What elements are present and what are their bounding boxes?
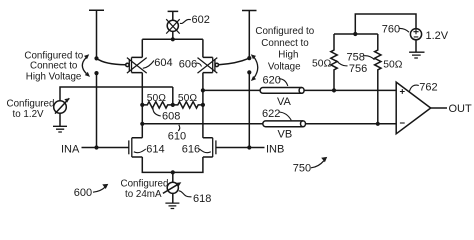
ground (1.2V source) [409,52,424,58]
transistor Q614 (NMOS) [129,138,143,157]
ground (tail current source) [165,203,179,208]
svg-text:606: 606 [179,59,197,71]
comparator 762 [396,82,431,134]
label 750 with arrow [293,157,327,175]
wire INB input line [216,147,265,149]
svg-text:50Ω: 50Ω [178,93,197,104]
current source 602 (crossed out circle) [166,19,180,39]
node dot1 left (high voltage option) [94,56,98,60]
node dot1 right (high voltage option) [247,56,251,60]
text Configured to 24mA [121,179,169,201]
wire VA line continues to comparator [304,89,396,91]
wire center tap down to resistor mid node [172,87,174,105]
switch arm from node to gate of Q604 [97,58,126,64]
power supply T-bar right (high voltage) [242,11,257,58]
svg-text:750: 750 [293,163,311,175]
junction node INB / config wire [247,145,251,149]
svg-text:Voltage: Voltage [268,62,301,73]
svg-text:Configured: Configured [121,179,169,190]
svg-text:756: 756 [349,63,367,75]
wire right rail from Q606 drain down [202,73,204,138]
svg-text:Connect to: Connect to [30,61,78,72]
label 600 with arrow [74,184,109,199]
svg-text:600: 600 [74,187,92,199]
svg-text:622: 622 [262,108,280,120]
wire left rail from Q604 drain down [141,73,143,138]
wire INA input line [82,147,129,149]
label 620 with leader [263,75,288,87]
text Configured to Connect to High Voltage (left) [24,50,83,82]
transmission line 620 [260,88,304,94]
power supply T-bar left (high voltage) [89,10,104,57]
svg-text:762: 762 [419,82,437,94]
node dot2 right (connect-to-INB option) [247,70,251,74]
wire 1.2V source to ground [59,113,61,126]
svg-text:50Ω: 50Ω [147,93,166,104]
wire VB line to transmission line [142,123,262,125]
text Configured to 1.2V [7,99,55,121]
node dot2 left (connect-to-INA option) [94,71,98,75]
wire left rail upper [141,39,143,57]
resistor 758 (50 ohm right termination) [375,34,381,124]
label 602 with leader [180,14,210,26]
text Configured to Connect to High Voltage (right) [255,26,314,73]
current source 618 (variable, configured to 24mA) [163,182,181,203]
svg-text:OUT: OUT [449,103,473,115]
wire tail to current source [172,172,174,182]
svg-text:Connect to: Connect to [261,38,309,49]
wire from dot2 down to INA line [96,73,98,147]
label 616 with leader [182,144,211,156]
junction node of 602 and rail [171,37,175,41]
svg-text:610: 610 [168,131,186,143]
junction node tail [171,170,175,174]
label 614 with leader [134,144,165,156]
wire from dot2 right down to INB line [248,72,250,147]
resistor 50 ohm right (driver termination) [173,102,203,108]
svg-text:50Ω: 50Ω [383,60,402,71]
svg-text:VB: VB [278,129,293,141]
resistor 50 ohm left (driver termination) [142,102,173,108]
junction node 756 on VA [332,88,336,92]
label 610 with leader [168,125,186,143]
node VB junction at left rail [140,122,144,126]
svg-text:618: 618 [193,193,211,205]
voltage source 760 (1.2V battery) [410,29,421,53]
junction node termination rail center [353,32,357,36]
svg-text:608: 608 [162,111,180,123]
label 762 with leader [409,82,437,94]
svg-text:760: 760 [382,24,400,36]
svg-text:to 1.2V: to 1.2V [13,109,45,120]
transistor Q604 (crossed-out PMOS) [126,57,147,73]
svg-text:VA: VA [277,96,292,108]
svg-text:1.2V: 1.2V [426,30,449,42]
wire comparator output [431,107,447,109]
svg-text:50Ω: 50Ω [312,59,331,70]
variable source configured to 1.2V (left) [54,87,173,114]
label 618 with leader [179,191,212,205]
power supply T-bar for current source 602 [168,11,179,20]
junction node left rail / resistor [140,103,144,107]
label 760 with leader [382,24,409,36]
label 608 with leader [153,108,180,123]
svg-text:616: 616 [182,144,200,156]
svg-text:INA: INA [61,144,80,156]
transistor Q606 (crossed-out PMOS) [198,57,219,73]
resistor 756 (50 ohm left termination) [331,34,337,90]
receiver top rail to 1.2V source [355,14,416,34]
svg-text:High: High [278,50,298,61]
receiver termination rail [334,33,378,35]
svg-text:604: 604 [154,57,172,69]
wire VA line to transmission line [203,89,260,91]
label 604 with leader [143,57,173,69]
svg-text:to 24mA: to 24mA [125,189,162,200]
label 756 with leader [336,61,367,76]
top rail wire connecting sources of Q604/Q606 [142,38,203,40]
svg-text:Configured: Configured [7,99,55,110]
svg-text:INB: INB [266,144,284,156]
transistor Q616 (NMOS) [203,138,216,157]
svg-text:614: 614 [146,144,164,156]
label 622 with leader [262,108,291,120]
node VA junction at right rail [201,88,205,92]
svg-text:602: 602 [192,14,210,26]
junction node 758 on VB [376,122,380,126]
junction node center tap [171,103,175,107]
svg-text:Configured to: Configured to [255,26,314,37]
wire sources of Q614/Q616 to tail [142,157,203,172]
curved double arrow (configure selector, left) [82,54,90,77]
transmission line 622 [263,121,306,127]
junction node right rail / resistor [201,103,205,107]
switch arm from gate of Q606 to node [219,58,250,64]
svg-text:High Voltage: High Voltage [26,72,82,83]
label 606 with leader [179,59,202,71]
svg-text:620: 620 [263,75,281,87]
label 758 with leader [347,52,375,64]
wire right rail upper [202,39,204,57]
ground (left source) [53,126,67,132]
svg-text:758: 758 [347,52,365,64]
curved double arrow (configure selector, right) [251,54,258,81]
wire VB line continues to comparator [306,123,397,125]
junction node INA / config wire [94,145,98,149]
